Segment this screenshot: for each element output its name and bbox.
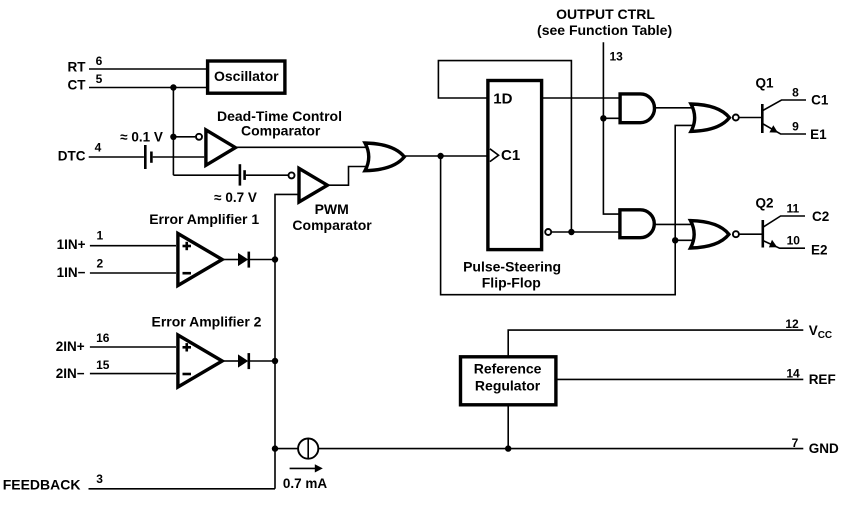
- battery 0.1V offset: [120, 129, 163, 169]
- NOR gate U-NOR2: [691, 221, 729, 248]
- wire feedback rail to PWM comparator input: [275, 194, 298, 488]
- node GND junction: [505, 445, 511, 451]
- node pin13 to AND1 junction: [600, 115, 606, 121]
- inversion bubble DTC comparator input: [196, 134, 202, 140]
- pin 2IN- label: [56, 358, 110, 381]
- op-amp error amplifier 2: [178, 335, 222, 387]
- svg-text:Reference: Reference: [474, 361, 542, 377]
- svg-text:13: 13: [610, 50, 624, 64]
- wire current source to GND pin: [318, 448, 803, 450]
- svg-text:Error Amplifier 1: Error Amplifier 1: [149, 211, 259, 227]
- wire output ctrl pin 13: [603, 42, 620, 214]
- pin DTC label: [58, 140, 102, 163]
- wire 1IN-: [90, 272, 176, 274]
- wire Q-bar to AND2: [552, 231, 620, 233]
- inversion bubble NOR1 output: [733, 115, 739, 121]
- node feedback rail to current source junction: [272, 445, 278, 451]
- inversion bubble PWM comparator input: [289, 172, 295, 178]
- inversion bubble Q-bar output: [545, 229, 551, 235]
- svg-text:FEEDBACK: FEEDBACK: [3, 476, 81, 492]
- transistor Q2: [739, 195, 829, 257]
- svg-text:1: 1: [96, 229, 103, 243]
- svg-text:9: 9: [792, 119, 799, 133]
- wire blanking to NOR2 input: [675, 239, 692, 241]
- oscillator block: [208, 61, 285, 93]
- node EA2 rail junction: [272, 358, 278, 364]
- wire CT sawtooth vertical: [172, 88, 174, 176]
- op-amp error amplifier 1: [178, 234, 222, 286]
- pin 12 / VCC label: [785, 317, 832, 341]
- svg-text:CT: CT: [68, 78, 87, 93]
- svg-text:2: 2: [96, 257, 103, 271]
- svg-text:≈ 0.1 V: ≈ 0.1 V: [120, 129, 163, 144]
- svg-text:10: 10: [787, 234, 801, 248]
- reference regulator block: [461, 357, 556, 405]
- wire DTC comparator output to OR gate: [237, 146, 371, 148]
- wire RT to oscillator: [89, 68, 207, 70]
- svg-text:RT: RT: [68, 59, 87, 74]
- wire REF: [556, 378, 803, 380]
- pin 1IN+ label: [57, 229, 104, 253]
- svg-text:8: 8: [792, 86, 799, 100]
- inversion bubble NOR2 output: [733, 231, 739, 237]
- label Dead-Time Control Comparator: [217, 108, 342, 138]
- svg-text:3: 3: [96, 472, 103, 486]
- wire EA2 output: [222, 360, 238, 362]
- wire clock blanking feedback to NOR gates: [441, 125, 693, 294]
- svg-text:Regulator: Regulator: [475, 377, 541, 393]
- wire 2IN+: [90, 346, 176, 348]
- wire 2IN-: [90, 373, 176, 375]
- pin 7 / GND label: [792, 436, 839, 456]
- svg-text:0.7 mA: 0.7 mA: [283, 476, 328, 491]
- diode D2: [238, 353, 249, 369]
- svg-text:11: 11: [786, 202, 799, 216]
- svg-text:PWM: PWM: [315, 201, 349, 217]
- svg-text:16: 16: [96, 331, 110, 345]
- wire D input feedback from Q-bar: [438, 61, 571, 232]
- AND gate U-AND1: [620, 94, 654, 123]
- svg-text:Comparator: Comparator: [241, 122, 321, 138]
- svg-text:1D: 1D: [493, 91, 512, 108]
- wire diode D2 to rail: [249, 360, 275, 362]
- NOR gate U-NOR1: [691, 104, 729, 131]
- svg-text:4: 4: [95, 140, 102, 154]
- svg-text:(see Function Table): (see Function Table): [537, 22, 672, 38]
- wire PWM comparator output to OR gate: [328, 167, 370, 186]
- svg-text:7: 7: [792, 436, 799, 450]
- wire battery to DTC comparator: [153, 156, 205, 158]
- current source 0.7 mA: [283, 439, 328, 492]
- svg-text:DTC: DTC: [58, 149, 86, 164]
- diode D1: [238, 252, 249, 268]
- node blanking to NOR2 junction: [672, 237, 678, 243]
- wire CT to oscillator: [89, 87, 207, 89]
- wire CT to PWM comparator with battery: [173, 174, 238, 176]
- node EA1 rail junction: [272, 256, 278, 262]
- op-amp dead-time control comparator: [206, 130, 236, 165]
- wire EA1 output: [222, 259, 238, 261]
- OR gate U-OR1: [365, 143, 404, 171]
- wire VCC: [508, 330, 803, 356]
- svg-text:E1: E1: [810, 127, 827, 142]
- wire OR gate output to flip-flop clock: [405, 155, 487, 157]
- wire battery to PWM comparator bubble: [246, 174, 288, 176]
- svg-text:Q2: Q2: [756, 195, 774, 210]
- wire FEEDBACK: [89, 488, 276, 490]
- label OUTPUT CTRL: [537, 6, 672, 38]
- svg-text:Pulse-Steering: Pulse-Steering: [463, 258, 561, 274]
- svg-text:Comparator: Comparator: [292, 217, 372, 233]
- pin 14 / REF label: [786, 366, 835, 387]
- svg-text:Q1: Q1: [756, 76, 775, 91]
- node CT to DTC comparator junction: [170, 134, 176, 140]
- wire Q output to AND1: [543, 97, 620, 99]
- wire pin13 to AND1 input: [603, 117, 620, 119]
- svg-text:14: 14: [786, 366, 800, 380]
- svg-text:5: 5: [96, 72, 103, 86]
- svg-text:6: 6: [96, 54, 103, 68]
- svg-text:1IN+: 1IN+: [57, 237, 86, 252]
- svg-text:15: 15: [96, 358, 110, 372]
- pin 1IN- label: [57, 257, 104, 280]
- pin CT label: [68, 72, 103, 93]
- svg-text:C1: C1: [501, 147, 520, 164]
- wire 1IN+: [90, 245, 176, 247]
- wire DTC pin: [89, 156, 144, 158]
- transistor Q1: [739, 76, 829, 142]
- svg-text:1IN−: 1IN−: [57, 265, 86, 280]
- wire AND1 output to NOR1: [655, 107, 694, 109]
- svg-text:E2: E2: [811, 242, 828, 257]
- svg-text:Error Amplifier 2: Error Amplifier 2: [152, 313, 262, 329]
- svg-text:2IN−: 2IN−: [56, 366, 85, 381]
- label Pulse-Steering Flip-Flop: [463, 258, 561, 290]
- AND gate U-AND2: [620, 210, 654, 238]
- svg-text:C1: C1: [811, 93, 829, 108]
- wire to DTC comparator inverting input: [173, 136, 195, 138]
- node Q-bar to D feedback junction: [568, 229, 574, 235]
- op-amp PWM comparator: [299, 168, 327, 202]
- svg-text:12: 12: [785, 317, 799, 331]
- label PWM Comparator: [292, 201, 372, 233]
- svg-text:GND: GND: [809, 441, 839, 456]
- pin 2IN+ label: [56, 331, 110, 354]
- wire rail to current source: [275, 448, 298, 450]
- pin RT label: [68, 54, 103, 75]
- svg-text:2IN+: 2IN+: [56, 339, 85, 354]
- svg-text:C2: C2: [812, 209, 829, 224]
- svg-text:Oscillator: Oscillator: [214, 68, 279, 84]
- node clock junction: [437, 153, 443, 159]
- svg-text:OUTPUT CTRL: OUTPUT CTRL: [556, 6, 655, 22]
- svg-text:REF: REF: [809, 372, 836, 387]
- svg-text:Flip-Flop: Flip-Flop: [482, 275, 541, 291]
- wire reference regulator to GND rail: [507, 405, 509, 449]
- wire diode D1 to rail: [249, 259, 275, 261]
- node CT junction: [170, 84, 176, 90]
- wire AND2 output to NOR2: [654, 223, 693, 225]
- battery 0.7V offset: [214, 164, 257, 205]
- flip-flop U-FF pulse steering: [488, 81, 542, 250]
- pin FEEDBACK label: [3, 472, 104, 493]
- svg-text:≈ 0.7 V: ≈ 0.7 V: [214, 190, 257, 205]
